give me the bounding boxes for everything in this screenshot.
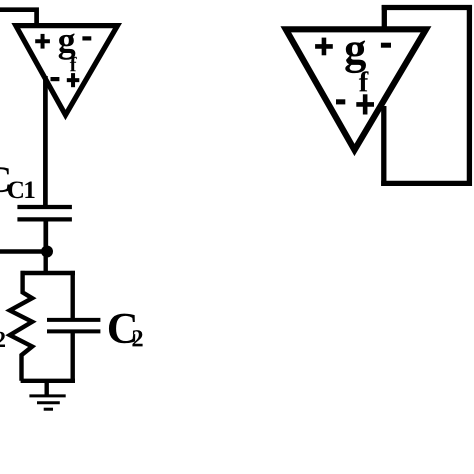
wire U2 output down to feedback — [381, 106, 386, 186]
wire top bar of R2 and C2 — [21, 271, 75, 275]
label U1 + (top-left input) — [35, 34, 50, 49]
wire input to U1 (top-left) — [0, 10, 37, 28]
wire to ground — [45, 381, 49, 396]
label U1 + (bottom-right output) — [67, 73, 80, 87]
wire feedback top — [382, 5, 472, 10]
label U1 - (bottom-left output) — [51, 77, 60, 81]
label C2 — [109, 314, 143, 347]
wire feedback bottom — [381, 181, 472, 186]
wire bottom bar of R2 and C2 — [21, 379, 75, 383]
wire U2 input from feedback (top stub) — [382, 5, 387, 29]
label U2 - (bottom-left output) — [336, 99, 345, 104]
op-amp U1 (transconductor gf, stage 1) — [16, 26, 118, 115]
wire left to node A — [0, 249, 47, 254]
node A (junction dot) — [41, 246, 53, 258]
wire feedback right — [467, 5, 472, 186]
label U1 gf — [59, 33, 77, 71]
label U2 - (top-right input) — [381, 43, 391, 48]
wire U1 output down to CC1 — [43, 76, 48, 206]
wire CC1 to node A — [43, 219, 48, 251]
label U1 - (top-right input) — [82, 36, 91, 40]
label R2 value "2" (partially cut at left edge) — [0, 332, 5, 347]
capacitor CC1 — [17, 207, 72, 219]
wire node A down to R2/C2 — [44, 252, 48, 275]
op-amp U2 (transconductor gf, stage 2) — [286, 29, 426, 150]
resistor R2 — [10, 271, 32, 381]
label U2 + (top-left input) — [315, 38, 333, 56]
label CC1 — [0, 167, 35, 198]
label U2 gf — [345, 40, 368, 91]
label U2 + (bottom-right output) — [356, 94, 374, 114]
capacitor C2 — [47, 271, 100, 383]
ground — [29, 396, 65, 409]
